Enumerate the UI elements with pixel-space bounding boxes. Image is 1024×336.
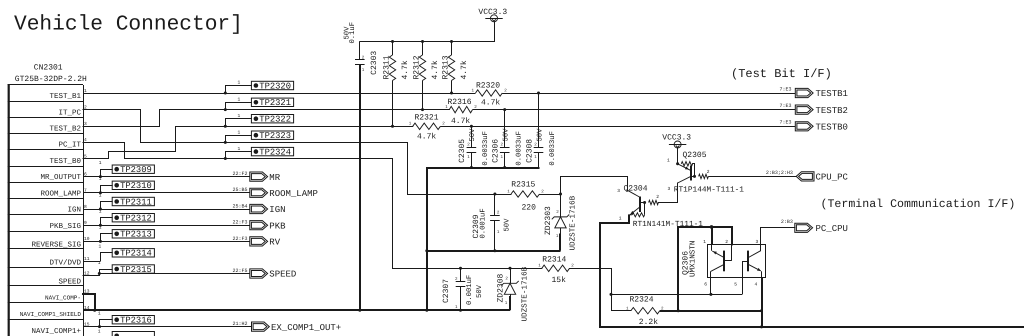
svg-text:R2324: R2324 xyxy=(630,295,654,304)
svg-text:8: 8 xyxy=(84,204,87,210)
wire MR net xyxy=(83,176,250,178)
junction rail/R2312 xyxy=(421,40,424,43)
junction thick-vertical/bus xyxy=(425,309,428,312)
test point TP2320 xyxy=(251,81,293,89)
zener diode ZD2303 UDZSTE-1716B xyxy=(560,194,562,217)
svg-text:TP2320: TP2320 xyxy=(259,81,291,91)
svg-text:C2303: C2303 xyxy=(370,51,379,75)
connector row separator xyxy=(8,198,83,200)
svg-text:22:F3: 22:F3 xyxy=(232,236,247,242)
svg-text:0.001uF: 0.001uF xyxy=(480,208,488,238)
svg-text:3: 3 xyxy=(617,188,620,194)
flag SPEED xyxy=(250,269,268,278)
junction TP2324 tap xyxy=(224,157,227,160)
svg-text:1: 1 xyxy=(99,192,102,198)
wire SPEED jog xyxy=(83,275,101,277)
resistor R2313 4.7k xyxy=(451,42,453,56)
wire Q2306 base node xyxy=(611,294,742,296)
svg-text:IGN: IGN xyxy=(269,205,285,215)
svg-text:0.0033uF: 0.0033uF xyxy=(549,131,557,166)
wire bus B thick (C2309/ZD2303 ground) xyxy=(427,250,561,252)
junction TP2320 tap xyxy=(224,92,227,95)
connector row separator xyxy=(8,231,83,233)
svg-text:R2315: R2315 xyxy=(511,181,535,190)
junction R2313/L1 xyxy=(450,92,453,95)
test point TP2311 lead xyxy=(100,201,113,203)
svg-text:6: 6 xyxy=(704,282,707,288)
wire pin3 to PC_CPU xyxy=(760,227,762,251)
svg-text:4.7k: 4.7k xyxy=(481,99,500,108)
svg-text:TP2313: TP2313 xyxy=(120,230,152,240)
wire pin4 to ground thick xyxy=(761,278,763,327)
test point TP2321 xyxy=(251,98,293,106)
svg-text:EX_COMP1_OUT+: EX_COMP1_OUT+ xyxy=(271,323,341,333)
connector row separator xyxy=(8,166,83,168)
junction C2309/busB xyxy=(493,249,496,252)
test point TP2310 lead xyxy=(100,185,113,187)
connector row separator xyxy=(8,133,83,135)
svg-text:1: 1 xyxy=(238,146,241,152)
svg-text:TP2321: TP2321 xyxy=(259,98,291,108)
junction C2307/bus xyxy=(459,309,462,312)
wire R2315 out xyxy=(540,194,561,196)
svg-text:MR: MR xyxy=(269,173,280,183)
resistor R2324 2.2k xyxy=(611,294,613,311)
svg-text:TP2310: TP2310 xyxy=(120,181,152,191)
junction C2305/busC xyxy=(470,166,473,169)
svg-text:25:B5: 25:B5 xyxy=(232,187,247,193)
svg-text:TP2316: TP2316 xyxy=(120,316,152,326)
resistor R2314 15k xyxy=(542,265,570,271)
svg-text:TP2309: TP2309 xyxy=(120,165,152,175)
junction Q2305 base node xyxy=(693,175,696,178)
wire VCC to Q2305 emitter xyxy=(677,148,679,164)
junction TP2315 tap xyxy=(98,272,101,275)
junction TP2321 tap xyxy=(224,108,227,111)
junction pin1/thick xyxy=(710,225,714,229)
svg-text:2: 2 xyxy=(656,194,659,200)
svg-text:TP2314: TP2314 xyxy=(120,249,152,259)
resistor Q2304 internal R1 xyxy=(649,200,659,204)
svg-text:4.7k: 4.7k xyxy=(431,60,440,79)
junction TP2323 tap xyxy=(224,141,227,144)
junction R2312/L2 xyxy=(421,108,424,111)
resistor Q2305 internal R2 xyxy=(681,162,692,166)
svg-text:RV: RV xyxy=(269,238,280,248)
svg-text:TP2311: TP2311 xyxy=(120,197,152,207)
wire pin4 inside xyxy=(761,271,763,277)
junction TP2316 tap xyxy=(98,325,101,328)
test point TP2314 lead xyxy=(100,252,113,254)
junction rail/R2313 xyxy=(450,40,453,43)
svg-text:1: 1 xyxy=(667,158,670,164)
svg-text:1: 1 xyxy=(238,97,241,103)
svg-text:7:E3: 7:E3 xyxy=(779,103,791,109)
svg-text:PKB: PKB xyxy=(269,221,286,231)
flag TESTB2 xyxy=(795,105,813,114)
svg-text:1: 1 xyxy=(703,239,706,245)
svg-text:REVERSE_SIG: REVERSE_SIG xyxy=(31,240,81,249)
svg-text:R2316: R2316 xyxy=(448,98,472,107)
svg-text:0.001uF: 0.001uF xyxy=(466,275,474,305)
junction Q2304 base node xyxy=(643,201,646,204)
connector row separator xyxy=(8,214,83,216)
svg-text:VCC3.3: VCC3.3 xyxy=(478,8,507,17)
svg-text:PC_CPU: PC_CPU xyxy=(816,224,848,234)
svg-text:UDZSTE-1716B: UDZSTE-1716B xyxy=(521,266,530,321)
wire PC_IT pin4 to R2314 xyxy=(83,142,126,144)
test point TP2311 xyxy=(112,197,154,205)
wire IT_PC pin2 to R2315 xyxy=(83,109,142,111)
wire R2314 out xyxy=(569,268,612,270)
connector CN2301 body xyxy=(8,84,10,336)
svg-text:TEST_B1: TEST_B1 xyxy=(49,92,81,101)
svg-text:IT_PC: IT_PC xyxy=(58,108,81,117)
wire RV net xyxy=(83,241,250,243)
junction ZD2303/IT line xyxy=(559,193,562,196)
junction pin13/bus xyxy=(93,309,96,312)
svg-text:TP2315: TP2315 xyxy=(120,265,152,275)
wire TEST_B1 net L1 left xyxy=(83,93,476,95)
wire pin5 outside xyxy=(742,278,744,295)
junction C2306/L2 xyxy=(503,108,506,111)
junction ZD2308/PC line xyxy=(509,267,512,270)
wire Q2304 base to Q2305 collector xyxy=(658,202,678,204)
svg-text:220: 220 xyxy=(522,204,537,213)
svg-text:11: 11 xyxy=(84,256,90,262)
svg-text:1: 1 xyxy=(619,215,622,221)
test point TP2316 xyxy=(112,316,154,324)
junction C2305/L3 xyxy=(470,125,473,128)
svg-text:PC_IT: PC_IT xyxy=(58,141,81,150)
svg-text:15k: 15k xyxy=(552,276,567,285)
svg-text:Vehicle Connector]: Vehicle Connector] xyxy=(14,13,243,37)
svg-text:R2321: R2321 xyxy=(415,113,439,122)
wire pin5 inside xyxy=(742,261,749,263)
wire NAVI_COMP1+ net xyxy=(83,326,252,328)
test point TP2320 lead xyxy=(225,85,252,87)
resistor R2316 4.7k xyxy=(449,106,472,112)
svg-text:GT25B-32DP-2.2H: GT25B-32DP-2.2H xyxy=(15,75,87,84)
svg-text:4.7k: 4.7k xyxy=(460,60,469,79)
svg-text:2:B3: 2:B3 xyxy=(781,219,793,225)
connector row separator xyxy=(8,248,83,250)
wire L2 continues to TESTB2 flag xyxy=(473,109,796,111)
svg-text:ROOM_LAMP: ROOM_LAMP xyxy=(40,189,81,198)
svg-text:CPU_PC: CPU_PC xyxy=(816,173,849,183)
junction pin6/base node xyxy=(709,293,712,296)
wire R2313 to L1 xyxy=(451,81,453,94)
svg-text:C2305: C2305 xyxy=(458,139,467,163)
svg-text:50V: 50V xyxy=(536,128,544,142)
svg-text:7:E3: 7:E3 xyxy=(779,120,791,126)
test point TP2321 lead xyxy=(225,102,252,104)
connector row separator xyxy=(8,101,83,103)
test point TP2324 lead xyxy=(225,151,252,153)
resistor R2315 220 xyxy=(511,191,540,197)
junction busB/vertical xyxy=(425,249,428,252)
svg-text:4.7k: 4.7k xyxy=(451,117,470,126)
svg-text:TESTB2: TESTB2 xyxy=(816,106,848,116)
test point TP2322 lead xyxy=(225,118,252,120)
junction pin4/bottom bus xyxy=(760,325,763,328)
svg-text:R2312: R2312 xyxy=(413,55,422,79)
connector row separator xyxy=(8,149,83,151)
flag CPU_PC xyxy=(796,172,814,181)
junction C2309/IT line xyxy=(493,193,496,196)
junction TP2322 tap xyxy=(224,125,227,128)
svg-text:1: 1 xyxy=(98,311,101,317)
test point TP2324 xyxy=(251,147,293,155)
test point TP2312 lead xyxy=(100,217,113,219)
svg-text:1: 1 xyxy=(99,209,102,215)
junction rail/R2311 xyxy=(391,40,394,43)
test point TP2315 xyxy=(112,265,154,273)
svg-text:RT1P144M-T111-1: RT1P144M-T111-1 xyxy=(674,186,745,195)
svg-text:(Test Bit I/F): (Test Bit I/F) xyxy=(731,67,832,81)
connector row separator xyxy=(8,285,83,287)
test point TP2323 xyxy=(251,131,293,139)
resistor R2311 4.7k xyxy=(392,42,394,56)
wire DTV/DVD stub xyxy=(83,261,100,263)
flag TESTB1 xyxy=(795,88,813,97)
wire pin1 inside xyxy=(711,244,713,250)
wire pin3 inside xyxy=(760,244,762,250)
resistor Q2304 internal R2 xyxy=(632,213,644,217)
svg-text:CN2301: CN2301 xyxy=(34,63,63,72)
wire R2311 to L3 xyxy=(392,81,394,127)
svg-text:1: 1 xyxy=(238,80,241,86)
svg-text:NAVI_COMP-: NAVI_COMP- xyxy=(45,295,81,302)
flag PKB xyxy=(250,221,268,230)
test point TP2317 (clipped at bottom) xyxy=(112,332,154,336)
flag MR xyxy=(250,172,268,181)
svg-text:1: 1 xyxy=(99,176,102,182)
wire NAVI_COMP- pin13 thick xyxy=(82,293,96,295)
svg-text:TEST_B0: TEST_B0 xyxy=(49,157,81,166)
connector row separator xyxy=(8,117,83,119)
svg-text:NAVI_COMP1_SHIELD: NAVI_COMP1_SHIELD xyxy=(20,311,82,318)
wire pin2 inside xyxy=(731,244,733,260)
svg-text:1: 1 xyxy=(238,113,241,119)
svg-text:0.0033uF: 0.0033uF xyxy=(482,131,490,166)
transistor Q2306-A bar xyxy=(723,251,725,272)
svg-text:TP2324: TP2324 xyxy=(259,148,291,158)
svg-text:50V: 50V xyxy=(504,218,512,232)
connector row separator xyxy=(8,319,83,321)
wire pin6 inside xyxy=(710,271,712,277)
svg-text:22:F3: 22:F3 xyxy=(232,220,247,226)
transistor pair Q2306 UMX1NSTN xyxy=(708,245,766,278)
svg-text:(Terminal Communication I/F): (Terminal Communication I/F) xyxy=(821,198,1016,211)
junction R2314/R2324/Q2306 node xyxy=(610,293,613,296)
flag EX_COMP1_OUT+ xyxy=(252,322,270,331)
capacitor C2303 xyxy=(359,42,361,60)
svg-text:22:F5: 22:F5 xyxy=(232,268,247,274)
wire CPU_PC line xyxy=(708,176,796,178)
test point TP2313 xyxy=(112,230,154,238)
wire bus NAVI_COMP- / shield net xyxy=(83,309,510,311)
svg-text:1: 1 xyxy=(238,129,241,135)
resistor R2312 4.7k xyxy=(422,42,424,56)
svg-text:1: 1 xyxy=(99,244,102,250)
svg-text:50V: 50V xyxy=(503,128,511,142)
flag ROOM_LAMP xyxy=(250,188,268,197)
wire SPEED net xyxy=(99,273,250,275)
svg-text:PKB_SIG: PKB_SIG xyxy=(49,222,81,231)
svg-text:1: 1 xyxy=(99,225,102,231)
wire VCC rail xyxy=(494,21,496,42)
resistor R2320 4.7k xyxy=(476,90,503,96)
svg-text:C2307: C2307 xyxy=(442,279,451,303)
svg-text:Q2305: Q2305 xyxy=(683,151,707,160)
capacitor C2305 0.0033uF xyxy=(471,126,473,147)
svg-text:ZD2303: ZD2303 xyxy=(544,206,553,235)
svg-text:TEST_B2: TEST_B2 xyxy=(49,125,81,134)
connector row separator xyxy=(8,182,83,184)
svg-text:1: 1 xyxy=(99,160,102,166)
junction C2308/L1 xyxy=(537,92,540,95)
junction C2306/busC xyxy=(503,166,506,169)
wire Q2304 emitter thick xyxy=(628,215,630,225)
svg-text:2.2k: 2.2k xyxy=(639,318,658,327)
svg-text:SPEED: SPEED xyxy=(58,277,81,286)
svg-text:R2320: R2320 xyxy=(476,81,500,90)
svg-text:21:H2: 21:H2 xyxy=(232,321,247,327)
test point TP2312 xyxy=(112,214,154,222)
junction TP2313 tap xyxy=(99,240,102,243)
svg-text:ROOM_LAMP: ROOM_LAMP xyxy=(269,189,318,199)
svg-text:TP2323: TP2323 xyxy=(259,131,291,141)
svg-text:4.7k: 4.7k xyxy=(417,133,436,142)
wire bus C (cap bottoms) thick xyxy=(426,167,540,169)
test point TP2316 lead xyxy=(99,319,113,321)
svg-text:3: 3 xyxy=(668,186,671,192)
test point TP2323 lead xyxy=(225,135,252,137)
svg-text:4.7k: 4.7k xyxy=(401,60,410,79)
wire ROOM_LAMP net xyxy=(83,192,250,194)
junction C2303/bus xyxy=(358,309,361,312)
svg-text:1: 1 xyxy=(84,88,87,94)
svg-text:1: 1 xyxy=(98,260,101,266)
svg-text:TP2322: TP2322 xyxy=(259,115,291,125)
resistor R2321 4.7k xyxy=(413,123,441,129)
svg-text:0.0033uF: 0.0033uF xyxy=(515,131,523,166)
transistor Q2306-B bar xyxy=(747,251,749,272)
svg-text:TESTB0: TESTB0 xyxy=(816,123,848,133)
svg-text:50V: 50V xyxy=(469,128,477,142)
svg-text:4: 4 xyxy=(755,282,758,288)
svg-text:IGN: IGN xyxy=(67,206,81,215)
junction TP2311 tap xyxy=(99,208,102,211)
junction C2307/PC line xyxy=(459,267,462,270)
svg-text:25:B4: 25:B4 xyxy=(232,203,247,209)
svg-text:50V: 50V xyxy=(476,284,484,298)
test point TP2315 lead xyxy=(99,269,113,271)
svg-text:2: 2 xyxy=(725,239,728,245)
capacitor C2308 0.0033uF xyxy=(538,93,540,147)
test point TP2309 xyxy=(112,165,154,173)
wire C2303 to bus thick xyxy=(359,65,361,311)
wire R2324 to pin4 thick xyxy=(678,310,761,312)
wire Q2306 pins1-2 ground tie thick xyxy=(677,226,679,312)
wire IGN net xyxy=(83,209,250,211)
svg-text:3: 3 xyxy=(756,239,759,245)
svg-text:22:F2: 22:F2 xyxy=(232,171,247,177)
svg-text:TP2312: TP2312 xyxy=(120,214,152,224)
svg-text:2: 2 xyxy=(707,169,710,175)
wire TEST_B1 net L1 right xyxy=(502,93,795,95)
svg-text:0.1uF: 0.1uF xyxy=(349,22,357,44)
flag TESTB0 xyxy=(795,122,813,131)
test point TP2310 xyxy=(112,181,154,189)
wire pin6 outside xyxy=(710,278,712,295)
wire IT node to Q2304 collector xyxy=(560,176,562,195)
test point TP2309 lead xyxy=(100,169,113,171)
wire L3 continues to TESTB0 flag xyxy=(440,126,795,128)
svg-text:5: 5 xyxy=(734,282,737,288)
wire PKB net xyxy=(83,225,250,227)
junction thick vertical/R2324 net xyxy=(677,309,680,312)
svg-text:TESTB1: TESTB1 xyxy=(816,89,848,99)
svg-text:R2311: R2311 xyxy=(383,55,392,79)
junction TP2310 tap xyxy=(99,191,102,194)
wire R2312 to L2 xyxy=(422,81,424,110)
transistor Q2304 RT1N141M-T111-1 xyxy=(639,197,641,213)
junction pin4/R2324 net xyxy=(760,309,763,312)
svg-text:UDZSTE-1716B: UDZSTE-1716B xyxy=(569,195,578,250)
test point TP2314 xyxy=(112,249,154,257)
test point TP2313 lead xyxy=(100,233,113,235)
svg-text:R2314: R2314 xyxy=(542,255,566,264)
junction TP2309 tap xyxy=(99,175,102,178)
svg-text:C2308: C2308 xyxy=(525,139,534,163)
svg-text:NAVI_COMP1+: NAVI_COMP1+ xyxy=(31,327,81,336)
flag RV xyxy=(250,237,268,246)
svg-text:C2306: C2306 xyxy=(492,139,501,163)
svg-text:R2313: R2313 xyxy=(442,55,451,79)
test point TP2322 xyxy=(251,115,293,123)
connector row separator xyxy=(8,302,83,304)
connector row separator xyxy=(8,267,83,269)
wire TEST_B2 pin3 to L2 xyxy=(83,126,161,128)
capacitor C2309 0.001uF xyxy=(494,194,496,216)
svg-text:MR_OUTPUT: MR_OUTPUT xyxy=(40,173,81,182)
svg-text:SPEED: SPEED xyxy=(269,270,296,280)
svg-text:Q2304: Q2304 xyxy=(624,184,648,193)
resistor Q2305 internal R1 xyxy=(699,174,709,178)
junction TP2312 tap xyxy=(99,224,102,227)
svg-text:ZD2308: ZD2308 xyxy=(497,273,506,302)
junction R2311/L3 xyxy=(391,125,394,128)
junction Q2305 emitter node xyxy=(676,162,679,165)
svg-text:7:E3: 7:E3 xyxy=(779,86,791,92)
svg-text:DTV/DVD: DTV/DVD xyxy=(49,259,81,268)
svg-text:UMX1NSTN: UMX1NSTN xyxy=(688,241,697,277)
capacitor C2306 0.0033uF xyxy=(504,110,506,148)
capacitor C2307 0.001uF xyxy=(460,268,462,281)
flag IGN xyxy=(250,204,268,213)
flag PC_CPU xyxy=(795,223,813,232)
svg-text:1: 1 xyxy=(98,329,101,335)
wire TEST_B0 pin5 to L3 xyxy=(83,158,110,160)
svg-text:2:B3;2:H3: 2:B3;2:H3 xyxy=(766,170,793,176)
